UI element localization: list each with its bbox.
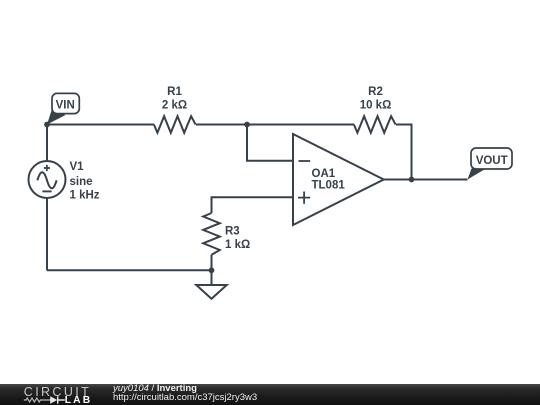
label VIN [56,99,75,111]
net flag VOUT [468,148,513,180]
wire op-amp output to VOUT [384,179,468,181]
resistor R2 [354,116,396,133]
wire V1 bottom to rail [46,198,48,270]
label R2 [360,86,392,111]
junction output node [409,177,415,183]
footer title text [113,384,257,403]
svg-text:R1: R1 [167,86,182,98]
svg-text:1 kHz: 1 kHz [70,190,100,202]
junction ground node [209,267,215,273]
op-amp OA1 [293,134,384,225]
svg-text:TL081: TL081 [312,179,346,191]
wire R2 down to output node [396,125,412,180]
svg-text:R2: R2 [368,86,383,98]
CircuitLab logo [0,384,110,405]
svg-text:R3: R3 [225,226,240,238]
svg-text:V1: V1 [70,161,85,173]
footer bar [0,384,540,405]
svg-text:10 kΩ: 10 kΩ [360,99,392,111]
svg-text:VOUT: VOUT [476,155,508,167]
junction node A [244,122,250,128]
svg-text:sine: sine [70,176,93,188]
wire VIN node down to V1 [46,125,48,162]
label OA1 [312,168,346,192]
label R3 [225,226,250,252]
svg-text:2 kΩ: 2 kΩ [162,99,187,111]
wire R1 to node A [196,124,247,126]
svg-text:1 kΩ: 1 kΩ [225,239,250,251]
svg-text:VIN: VIN [56,99,75,111]
junction node VIN [44,122,50,128]
wire node A to inverting input [247,125,293,161]
resistor R1 [154,116,196,133]
voltage source V1 [29,161,66,198]
wire VIN node to R1 [47,124,154,126]
wire bottom rail V1 to ground node [47,269,212,271]
ground [196,270,226,299]
label V1 value [70,161,100,202]
net flag VIN [47,93,79,124]
wire noninverting input to R3 [212,197,294,213]
wire node A to R2 [247,124,354,126]
wire R3 to ground node [211,255,213,271]
label R1 [162,86,187,111]
label VOUT [476,155,508,167]
svg-text:OA1: OA1 [312,168,336,180]
resistor R3 [203,213,220,255]
svg-text:LAB: LAB [65,395,92,405]
